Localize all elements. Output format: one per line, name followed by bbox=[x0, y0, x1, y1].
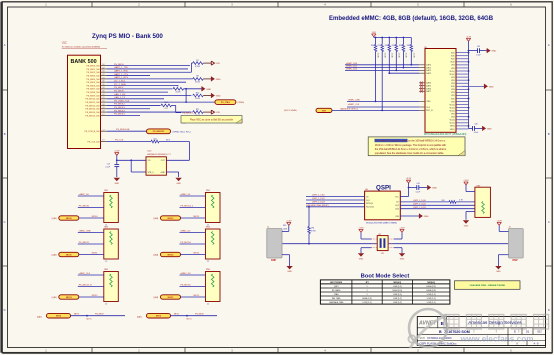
ground symbol under C13 bbox=[114, 178, 120, 185]
capacitor C44 0.1uF bbox=[409, 183, 428, 194]
svg-text:PS_MIO0: PS_MIO0 bbox=[114, 64, 124, 66]
svg-text:XC7Z010-1CLG400C Zynq7000 400B: XC7Z010-1CLG400C Zynq7000 400BGA bbox=[62, 46, 101, 49]
wire oscillator GND bbox=[166, 172, 178, 177]
svg-text:LOW (1-2): LOW (1-2) bbox=[393, 302, 402, 304]
svg-text:R43: R43 bbox=[283, 225, 286, 227]
pins VDD/VSS of U5 with power bus bbox=[449, 52, 469, 131]
svg-text:[QA3]: [QA3] bbox=[52, 217, 57, 220]
svg-text:4 - 9: 4 - 9 bbox=[534, 342, 539, 345]
svg-text:E: E bbox=[514, 329, 516, 333]
svg-text:GND: GND bbox=[206, 89, 211, 91]
pin PS_MIO15_500 of U1C (pin E7) bbox=[85, 114, 107, 118]
wire net PS_CLK with series resistor bbox=[107, 138, 189, 160]
power flag 1.8V on R7 bbox=[211, 61, 220, 65]
wire net eMMC_D01 bbox=[345, 66, 419, 69]
svg-text:eMMC_D2: eMMC_D2 bbox=[181, 231, 192, 233]
svg-text:PS_MIO10_500: PS_MIO10_500 bbox=[85, 99, 100, 101]
svg-text:R31: R31 bbox=[371, 45, 374, 47]
svg-text:PS_MIO7_500: PS_MIO7_500 bbox=[86, 89, 100, 91]
svg-text:4.99K: 4.99K bbox=[195, 66, 201, 68]
watermark glyphs bbox=[444, 315, 549, 344]
svg-text:10.0K: 10.0K bbox=[377, 53, 379, 59]
wire net eMMC_D0 bbox=[78, 194, 104, 196]
AVNET logo bbox=[418, 321, 437, 327]
svg-text:LOW (1-2): LOW (1-2) bbox=[363, 302, 372, 304]
svg-text:SD CARD: SD CARD bbox=[332, 289, 341, 292]
part number XC7Z010-1CLG400C bbox=[62, 46, 107, 49]
svg-text:PS_CLK: PS_CLK bbox=[115, 140, 124, 142]
wire RN7 to 3.3V bbox=[466, 185, 475, 192]
svg-text:eMMC_D3: eMMC_D3 bbox=[181, 273, 192, 275]
svg-text:B: B bbox=[4, 132, 6, 136]
svg-text:VSSQ: VSSQ bbox=[450, 126, 456, 128]
power flag 3.3V for RN7 bbox=[463, 180, 469, 185]
svg-text:HIGH (2-3): HIGH (2-3) bbox=[362, 298, 372, 300]
svg-text:PS_NRST33: PS_NRST33 bbox=[153, 131, 165, 133]
svg-text:LOW (1-2): LOW (1-2) bbox=[427, 294, 436, 296]
ground flag for C46 bbox=[483, 126, 493, 131]
wire net CAN_1_TX bbox=[107, 96, 164, 99]
IC U5 eMMC MTFC8GAKAJCN body bbox=[424, 47, 456, 133]
svg-text:BOOT MODE: BOOT MODE bbox=[330, 282, 342, 284]
svg-text:B6: B6 bbox=[103, 91, 105, 93]
svg-text:RN5: RN5 bbox=[104, 269, 108, 271]
svg-text:LOW (1-2): LOW (1-2) bbox=[427, 302, 436, 304]
wire net PS_MIO11 bbox=[78, 242, 104, 244]
svg-text:+3.3V: +3.3V bbox=[114, 151, 120, 153]
wire U6 VCC bbox=[400, 183, 409, 197]
svg-text:10.0K: 10.0K bbox=[398, 53, 400, 59]
ground symbol for J3 bbox=[495, 266, 501, 273]
svg-text:QSPI: QSPI bbox=[376, 184, 391, 191]
power flag 3.3V for J2 bbox=[286, 220, 292, 225]
resistor pack RN2 bbox=[206, 190, 221, 226]
svg-text:VDDQ: VDDQ bbox=[449, 71, 455, 73]
svg-text:CMD: CMD bbox=[426, 101, 431, 103]
svg-text:10.0K: 10.0K bbox=[391, 53, 393, 59]
svg-text:the 153-ball WFBGA 11.5mm x 13: the 153-ball WFBGA 11.5mm x 13.0mm x 0.8… bbox=[375, 147, 447, 151]
wire net I2C_1_SCL bbox=[107, 81, 186, 83]
svg-text:Zynq PS MIO - Bank 500: Zynq PS MIO - Bank 500 bbox=[92, 33, 163, 40]
wire JP1 pin6 to ground bbox=[394, 248, 402, 254]
svg-text:J2: J2 bbox=[267, 226, 269, 228]
pin PS_MIO9_500 of U1C (pin E9) bbox=[86, 94, 107, 98]
wire net QSPI_1_DQ2 bbox=[400, 204, 475, 206]
ground symbol for RN7 bbox=[463, 220, 469, 227]
resistor R35 10.0K pull-up bbox=[399, 38, 407, 68]
svg-text:D: D bbox=[548, 308, 550, 312]
wire net QSPI_1_DQ3 bbox=[400, 207, 475, 209]
svg-text:RN6: RN6 bbox=[206, 269, 210, 271]
pin DAT6 of U5 bbox=[419, 87, 431, 90]
svg-text:DAT4: DAT4 bbox=[426, 82, 431, 85]
resistor R32 10.0K pull-up bbox=[378, 38, 386, 111]
svg-text:PS_MIO11: PS_MIO11 bbox=[79, 242, 90, 244]
pin DAT5 of U5 bbox=[419, 84, 431, 87]
pin PS_MIO14_500 of U1C (pin D8) bbox=[85, 110, 107, 114]
svg-text:DAT3: DAT3 bbox=[426, 72, 431, 75]
boot mode table bbox=[320, 280, 450, 304]
wire net PS_MIO10 bbox=[78, 206, 104, 208]
svg-text:C45: C45 bbox=[477, 46, 480, 48]
svg-text:eMMC_D1: eMMC_D1 bbox=[181, 194, 192, 196]
resistor pack RN6 bbox=[206, 269, 221, 305]
pin PS_MIO7_500 of U1C (pin D6) bbox=[86, 87, 107, 91]
svg-text:DAT1: DAT1 bbox=[426, 66, 431, 69]
svg-text:20.0K: 20.0K bbox=[195, 82, 201, 84]
svg-text:1: 1 bbox=[367, 294, 368, 296]
svg-text:10.0K: 10.0K bbox=[413, 53, 415, 59]
svg-text:eMMC_CLK: eMMC_CLK bbox=[79, 273, 91, 275]
svg-text:VSSQ: VSSQ bbox=[450, 129, 456, 131]
svg-text:CASCADE JTAG - DEFAULT MODE: CASCADE JTAG - DEFAULT MODE bbox=[470, 284, 506, 287]
pin DAT3 of U5 bbox=[419, 72, 431, 75]
svg-text:PS_MIO9_500: PS_MIO9_500 bbox=[86, 95, 100, 97]
off-page connector MIO0 net tie bbox=[137, 313, 217, 320]
svg-text:C: C bbox=[4, 220, 6, 224]
svg-text:PS_MIO11_500: PS_MIO11_500 bbox=[86, 102, 101, 104]
svg-text:DAT6: DAT6 bbox=[426, 87, 431, 90]
svg-text:D8: D8 bbox=[102, 110, 104, 112]
svg-text:+3.3V: +3.3V bbox=[358, 227, 364, 229]
wire net PS_MIO0 bbox=[107, 64, 190, 66]
svg-text:[QA3]: [QA3] bbox=[154, 254, 159, 257]
off-page connector eMMC_RST bbox=[284, 108, 419, 113]
svg-text:PS_MIO3_500: PS_MIO3_500 bbox=[86, 75, 100, 77]
wire JP1 pin4 to 3.3V bbox=[394, 232, 402, 239]
svg-text:This eMMC Footprint is based o: This eMMC Footprint is based on the 169-… bbox=[375, 139, 446, 143]
pin DAT1 of U5 bbox=[419, 66, 431, 69]
svg-text:UART_1_TXD: UART_1_TXD bbox=[114, 66, 128, 69]
svg-text:PS_MIO8: PS_MIO8 bbox=[114, 90, 124, 92]
off-page connector MIO13 bbox=[154, 216, 206, 220]
ground flag on R10 bbox=[211, 93, 221, 98]
off-page connector PS_JTAG_TCK bbox=[215, 100, 244, 105]
pin DAT0 of U5 bbox=[419, 64, 431, 67]
svg-text:20.0K: 20.0K bbox=[176, 92, 182, 94]
resistor R36 10.0K pull-up bbox=[407, 38, 415, 65]
resistor R34 10.0K pull-up bbox=[392, 38, 400, 71]
svg-text:+3.3V: +3.3V bbox=[466, 36, 472, 38]
svg-text:CAN_1_TX: CAN_1_TX bbox=[114, 96, 126, 99]
svg-text:I2C_1_SCL: I2C_1_SCL bbox=[114, 81, 126, 83]
IC U6 QSPI flash body bbox=[365, 191, 401, 220]
svg-text:MIO13: MIO13 bbox=[168, 218, 174, 220]
svg-text:22: 22 bbox=[105, 261, 107, 263]
svg-text:[QA2]: [QA2] bbox=[37, 316, 42, 319]
svg-text:1: 1 bbox=[367, 286, 368, 288]
wire net PS_MIO14 bbox=[180, 242, 206, 244]
resistor R33 10.0K pull-up bbox=[385, 38, 393, 74]
pin PS_MIO2_500 of U1C (pin B4) bbox=[86, 71, 107, 75]
wire net UART_1_RXD bbox=[107, 70, 191, 73]
wire net CASCADE_JTAG (BKUP) bbox=[306, 204, 365, 208]
svg-text:LOW (1-2): LOW (1-2) bbox=[427, 298, 436, 300]
svg-text:HIGH (2-3): HIGH (2-3) bbox=[393, 290, 403, 292]
svg-text:B5: B5 bbox=[103, 84, 105, 86]
svg-text:GND: GND bbox=[161, 172, 166, 174]
svg-text:GND: GND bbox=[496, 271, 501, 273]
svg-text:GND: GND bbox=[400, 258, 405, 260]
svg-text:DAT7: DAT7 bbox=[426, 90, 431, 93]
svg-text:C: C bbox=[548, 220, 550, 224]
capacitor C13 0.1uF bbox=[105, 160, 119, 177]
svg-text:PS_POR_B_500: PS_POR_B_500 bbox=[85, 131, 101, 133]
svg-text:PS_MIO12_500: PS_MIO12_500 bbox=[85, 105, 100, 107]
wire eMMC power bus bbox=[468, 41, 470, 128]
svg-text:MIO11: MIO11 bbox=[92, 253, 98, 255]
pin PS_MIO8_500 of U1C (pin B6) bbox=[86, 91, 107, 95]
svg-text:QSPI_1_DQ3: QSPI_1_DQ3 bbox=[312, 202, 326, 204]
pin DAT7 of U5 bbox=[419, 90, 431, 93]
svg-text:eMMC_D01: eMMC_D01 bbox=[346, 66, 358, 68]
power flag 3.3V for oscillator bbox=[114, 151, 120, 156]
power flag 1.8V for eMMC pull-ups bbox=[372, 32, 377, 37]
svg-text:GND: GND bbox=[176, 183, 181, 185]
resistor R8 20.0K on UART_1_RTS bbox=[193, 76, 211, 84]
svg-text:PS_MIO2_500: PS_MIO2_500 bbox=[86, 72, 100, 74]
svg-text:LOW (1-2): LOW (1-2) bbox=[393, 294, 402, 296]
wire net PS_MIO12_R bbox=[78, 285, 104, 287]
header J3 DNP bbox=[498, 225, 523, 266]
svg-text:[QA3]: [QA3] bbox=[52, 296, 57, 299]
svg-text:Place R5C as close to Ball E6: Place R5C as close to Ball E6 as possibl… bbox=[190, 119, 234, 122]
svg-text:U1C: U1C bbox=[62, 41, 67, 45]
svg-text:R7: R7 bbox=[196, 60, 198, 62]
wire net PS_MIO14 bbox=[107, 110, 191, 112]
svg-text:PS_MIO4_500: PS_MIO4_500 bbox=[86, 79, 100, 81]
svg-text:DQ2: DQ2 bbox=[395, 205, 399, 207]
svg-text:MIO[8:6]: MIO[8:6] bbox=[427, 282, 435, 284]
wire net QSPI_1_CS0 bbox=[306, 195, 365, 197]
svg-text:22: 22 bbox=[207, 304, 209, 306]
svg-text:GND: GND bbox=[216, 96, 221, 98]
svg-text:(SOCL,SDA3): (SOCL,SDA3) bbox=[284, 109, 297, 112]
svg-text:10.0K: 10.0K bbox=[383, 53, 385, 59]
svg-text:PS_MIO5_500: PS_MIO5_500 bbox=[86, 82, 100, 84]
wire net I2C_1_SDA bbox=[107, 83, 178, 86]
svg-text:PS_MIO13_R: PS_MIO13_R bbox=[182, 113, 196, 115]
ground flag on R9 bbox=[202, 86, 212, 91]
resistor R44 DNI 4.99K on cascade net bbox=[308, 207, 317, 244]
svg-text:D9: D9 bbox=[102, 101, 104, 103]
svg-text:BANK 500: BANK 500 bbox=[71, 59, 97, 65]
reference designator U6 bbox=[365, 189, 369, 191]
off-page connector MIO14 bbox=[154, 252, 206, 256]
pin PS_MIO6_500 of U1C (pin B5) bbox=[86, 84, 107, 88]
off-page connector PS_NRST33 bbox=[147, 129, 191, 134]
svg-text:C7: C7 bbox=[102, 129, 104, 131]
wire RN7 to ground bbox=[466, 212, 475, 220]
ground symbol for J2 bbox=[286, 266, 292, 273]
svg-text:R32: R32 bbox=[378, 45, 381, 47]
ground flag on R8 bbox=[211, 77, 221, 82]
wire net QSPI boot chain bbox=[282, 243, 509, 245]
wire net PS_MIO8 bbox=[107, 90, 168, 92]
resistor R9 20.0K on PS_MIO7 bbox=[173, 86, 202, 103]
svg-text:Boot Mode Select: Boot Mode Select bbox=[361, 273, 410, 279]
svg-text:DAT2: DAT2 bbox=[426, 69, 431, 72]
svg-text:20.0K: 20.0K bbox=[195, 98, 201, 100]
svg-text:+3.3V: +3.3V bbox=[286, 220, 292, 222]
svg-text:C44: C44 bbox=[416, 183, 419, 185]
pin DAT2 of U5 bbox=[419, 69, 431, 72]
svg-text:+3.3V: +3.3V bbox=[399, 227, 405, 229]
svg-text:A: A bbox=[4, 43, 6, 47]
wire net eMMC_D03 bbox=[388, 72, 419, 74]
svg-text:CASCADE JTAG: CASCADE JTAG bbox=[329, 301, 344, 304]
svg-text:HIGH (2-3): HIGH (2-3) bbox=[427, 286, 437, 288]
no-connect marks on DAT4-DAT7 bbox=[420, 82, 422, 93]
svg-text:(GPM1,T0/CL RX+): (GPM1,T0/CL RX+) bbox=[173, 131, 191, 133]
off-page connector MIO9 net tie bbox=[37, 313, 125, 320]
note: eMMC footprint compatibility bbox=[368, 137, 465, 156]
svg-text:MIO10: MIO10 bbox=[92, 216, 98, 218]
svg-text:LOW (1-2): LOW (1-2) bbox=[393, 298, 402, 300]
note: cascade JTAG default mode bbox=[455, 281, 521, 290]
pin PS_MIO11_500 of U1C (pin D9) bbox=[86, 101, 107, 105]
resistor pack RN7 QSPI pull-ups bbox=[475, 185, 491, 217]
svg-text:GND: GND bbox=[359, 258, 364, 260]
svg-text:1.8V: 1.8V bbox=[216, 63, 221, 65]
header J2 DNP bbox=[267, 225, 290, 266]
wire net UART_1_CTS bbox=[107, 73, 150, 76]
svg-text:DNP: DNP bbox=[513, 259, 518, 262]
svg-text:UART_1_RTS: UART_1_RTS bbox=[114, 76, 128, 79]
oscillator U12 ASDMB-33.333MHZ-LC-T bbox=[146, 151, 172, 176]
svg-text:D6: D6 bbox=[102, 87, 104, 89]
wire oscillator VDD bbox=[116, 155, 146, 172]
svg-text:PS_MIO13: PS_MIO13 bbox=[114, 107, 125, 109]
off-page connector MIO11 bbox=[52, 252, 104, 256]
svg-text:C46: C46 bbox=[474, 124, 477, 126]
svg-text:PS_MIO9: PS_MIO9 bbox=[95, 314, 105, 316]
svg-text:C5: C5 bbox=[102, 77, 104, 79]
svg-text:DQ3: DQ3 bbox=[395, 209, 399, 211]
jumper JP1 bbox=[372, 234, 394, 255]
resistor R7 4.99K on UART_1_RXD pull-up bbox=[191, 60, 211, 72]
svg-text:1: 1 bbox=[367, 290, 368, 292]
svg-text:10.0K: 10.0K bbox=[405, 53, 407, 59]
wire net eMMC_CLK bbox=[347, 104, 419, 107]
svg-text:UART_1_CTS: UART_1_CTS bbox=[114, 73, 128, 76]
svg-text:VDDQ: VDDQ bbox=[449, 110, 455, 112]
svg-text:PS_JTAG: PS_JTAG bbox=[221, 101, 230, 104]
svg-text:STB_X: STB_X bbox=[148, 172, 155, 174]
svg-text:MIO15: MIO15 bbox=[168, 297, 174, 299]
svg-text:eMMC_CMD: eMMC_CMD bbox=[348, 100, 361, 102]
svg-text:R36: R36 bbox=[407, 45, 410, 47]
svg-text:GND: GND bbox=[432, 188, 437, 190]
power flag 1.8V on R11 bbox=[211, 110, 220, 114]
wire net PS_MIO13_2 bbox=[180, 206, 206, 208]
wire net eMMC_D02 bbox=[345, 69, 419, 72]
svg-text:B4: B4 bbox=[103, 71, 105, 73]
svg-text:Net Tie: Net Tie bbox=[186, 318, 191, 321]
svg-text:MIO13: MIO13 bbox=[194, 216, 200, 218]
svg-text:eMMC_D0: eMMC_D0 bbox=[79, 194, 90, 196]
svg-text:Embedded eMMC: 4GB, 8GB (defau: Embedded eMMC: 4GB, 8GB (default), 16GB,… bbox=[329, 16, 494, 22]
resistor R11 20.0K on PS_MIO14 bbox=[193, 109, 211, 117]
pin PS_MIO4_500 of U1C (pin C5) bbox=[86, 77, 107, 81]
svg-text:MIO12: MIO12 bbox=[92, 295, 98, 297]
svg-text:GND: GND bbox=[216, 79, 221, 81]
section title: QSPI bbox=[376, 184, 391, 191]
svg-text:[QA3]: [QA3] bbox=[154, 217, 159, 220]
svg-text:[QA2]: [QA2] bbox=[137, 316, 142, 319]
wire net QSPI_1_DQ1 bbox=[306, 198, 365, 200]
svg-text:GND: GND bbox=[487, 129, 492, 131]
off-page connector MIO15 bbox=[154, 295, 206, 299]
pin PS_MIO13_500 of U1C (pin C8) bbox=[85, 107, 107, 111]
wire net PS_MODULE reset bbox=[107, 129, 147, 131]
power flag 3.3V for J3 bbox=[497, 220, 503, 225]
svg-text:DQ1: DQ1 bbox=[366, 200, 370, 202]
svg-text:RN4: RN4 bbox=[206, 227, 210, 229]
svg-text:VDDQ: VDDQ bbox=[449, 120, 455, 122]
svg-text:GND: GND bbox=[491, 51, 496, 53]
svg-text:LOW (1-2): LOW (1-2) bbox=[393, 286, 402, 288]
wire net CAN_1_RX bbox=[107, 93, 191, 96]
svg-text:MIO[4:3]: MIO[4:3] bbox=[394, 281, 402, 284]
wire net QSPI_1_DQ3 bbox=[306, 202, 365, 204]
ground symbol for oscillator bbox=[175, 178, 181, 185]
svg-text:J3: J3 bbox=[509, 226, 511, 228]
wire net eMMC_D2 bbox=[180, 231, 206, 233]
section title: Embedded eMMC bbox=[329, 16, 494, 22]
svg-text:R8: R8 bbox=[196, 76, 198, 78]
svg-text:PS_MIO1_500: PS_MIO1_500 bbox=[86, 69, 100, 71]
svg-text:D: D bbox=[4, 308, 6, 312]
svg-text:PS_MIO12_R: PS_MIO12_R bbox=[79, 285, 92, 287]
svg-text:RST_N: RST_N bbox=[426, 110, 433, 112]
svg-text:populated. See the Hardware Us: populated. See the Hardware User Guide f… bbox=[375, 151, 444, 155]
pin PS_MIO5_500 of U1C (pin A6) bbox=[86, 80, 107, 85]
svg-text:+3.3V: +3.3V bbox=[406, 178, 412, 180]
wire net QSPI_1_DQ0 with series resistor bbox=[400, 200, 475, 204]
reference designator U1C bbox=[62, 41, 67, 45]
svg-text:453: 453 bbox=[164, 108, 167, 110]
svg-text:1.8V: 1.8V bbox=[216, 112, 221, 114]
svg-text:VDDQ: VDDQ bbox=[449, 107, 455, 109]
svg-text:22: 22 bbox=[207, 261, 209, 263]
svg-text:RN1: RN1 bbox=[104, 190, 108, 192]
svg-text:JTAG: JTAG bbox=[334, 293, 339, 296]
wire net PS_JTAG_TCK bbox=[107, 99, 215, 102]
wire net eMMC_D3 bbox=[180, 273, 206, 275]
svg-text:UART_1_RXD: UART_1_RXD bbox=[114, 70, 129, 73]
svg-text:eMMC_D02: eMMC_D02 bbox=[346, 69, 358, 71]
svg-text:B: B bbox=[439, 330, 442, 334]
svg-text:+3.3V: +3.3V bbox=[463, 180, 469, 182]
title block texts bbox=[420, 320, 541, 346]
pin PS_MIO12_500 of U1C (pin E8) bbox=[85, 104, 107, 108]
svg-text:R12: R12 bbox=[153, 138, 156, 140]
svg-text:PS_CLK_500: PS_CLK_500 bbox=[87, 141, 100, 143]
svg-text:MIO15: MIO15 bbox=[194, 295, 200, 297]
svg-text:PS_MIO7: PS_MIO7 bbox=[114, 87, 124, 89]
resistor R5C 453 on PS_MIO12 bbox=[161, 102, 196, 115]
svg-text:R11: R11 bbox=[196, 109, 199, 111]
svg-text:IND JTAG: IND JTAG bbox=[332, 297, 341, 300]
wire net UART_1_RTS bbox=[107, 76, 193, 79]
svg-text:PS_MIO15: PS_MIO15 bbox=[181, 285, 192, 287]
svg-text:GND: GND bbox=[464, 226, 469, 228]
wire net PS_MIO7 bbox=[107, 87, 173, 89]
resistor R43 100K near header J2 bbox=[283, 225, 288, 230]
svg-text:R9: R9 bbox=[177, 86, 179, 88]
svg-text:+3.3V: +3.3V bbox=[497, 220, 503, 222]
